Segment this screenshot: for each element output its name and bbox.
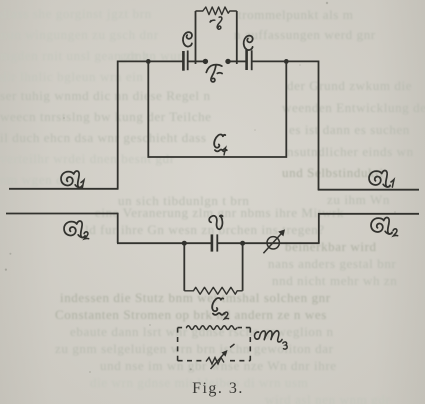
node: L2 left junction dot — [182, 241, 187, 246]
resistor w zigzag — [196, 7, 237, 15]
label V (capacitor) — [209, 215, 222, 229]
coil L2 bottom with resistor zigzag — [184, 287, 242, 294]
M3 coil wave on top edge — [187, 326, 237, 330]
wire: top main horizontal right segment — [252, 60, 319, 62]
M3 arrow flourish — [230, 344, 235, 348]
M3 dashed box: bottom edge dashes — [178, 360, 205, 362]
M3 dashed box: right side — [249, 328, 251, 361]
coil L1 rectangle — [148, 61, 286, 157]
capacitor V plates — [212, 234, 217, 251]
meter arrow — [263, 231, 284, 254]
wire: left capacitor inner lead — [188, 60, 204, 62]
node: L1 right junction dot — [284, 59, 289, 64]
label C (right capacitor) — [244, 36, 253, 50]
wire: line A1 right horizontal — [318, 189, 419, 191]
wire: top main horizontal left segment — [118, 60, 183, 62]
wire: lower middle horizontal (right part) — [217, 242, 319, 244]
wire: right capacitor inner lead — [230, 60, 246, 62]
label A2 (right) — [371, 218, 398, 236]
resistor w loop (right riser) — [236, 11, 238, 64]
node: left terminal dot — [203, 59, 208, 64]
label w (resistor) — [210, 17, 222, 29]
capacitor C (right) plates — [247, 50, 252, 70]
M3 arrow head — [222, 350, 228, 357]
coil L2 loop right riser — [242, 243, 244, 291]
label C (left capacitor) — [183, 32, 192, 46]
label M3 (mutual inductance) — [255, 331, 288, 349]
wire: A2 right step-up vertical — [318, 213, 320, 243]
wire: line A2 right horizontal — [318, 213, 419, 215]
coil L2 loop left riser — [183, 243, 185, 291]
label L2 (coil) — [212, 298, 228, 319]
wire: line A1 left horizontal — [9, 188, 119, 190]
meter arrow head — [278, 229, 285, 236]
faint bleed-through text background — [0, 6, 152, 22]
wire: right outer vertical — [318, 61, 320, 190]
wire: lower middle horizontal (left part) — [117, 242, 212, 244]
resistor w loop (left riser) — [195, 11, 197, 64]
wire: left outer vertical — [117, 61, 119, 189]
label L1 (coil) — [214, 134, 227, 154]
node: L1 left junction dot — [146, 59, 151, 64]
meter / variable element circle — [267, 237, 279, 249]
node F: right terminal dot — [225, 59, 230, 64]
label F (node) — [205, 65, 223, 82]
label A1 (left) — [61, 171, 84, 188]
label A2 (left) — [64, 221, 89, 239]
M3 dashed box: top edge dashes — [178, 327, 187, 329]
caption Fig. 3. — [148, 380, 288, 398]
node: L2 right junction dot — [240, 241, 245, 246]
label A1 (right) — [369, 171, 394, 188]
M3 adjustable contact zigzag — [206, 358, 224, 365]
wire: line A2 left horizontal — [6, 213, 118, 215]
M3 adjustable contact arrow — [211, 352, 227, 370]
capacitor C (left) plates — [183, 51, 187, 71]
wire: A2 left step-down vertical — [117, 213, 119, 244]
mutual inductance M3 dashed box: left side — [177, 328, 179, 361]
